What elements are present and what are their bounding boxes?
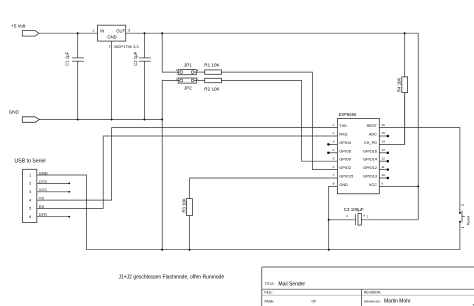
svg-text:16: 16 (381, 123, 385, 127)
svg-text:1: 1 (333, 123, 335, 127)
stub pin3 GPIO4 unconnected (330, 143, 338, 145)
pushbutton S1 Reset (459, 211, 470, 225)
IC U1 ESP8266 (337, 112, 379, 194)
svg-text:2: 2 (333, 131, 335, 135)
pin number 1 reset (461, 204, 464, 206)
wire R2 to GPIO0 route (221, 81, 337, 162)
svg-text:FILE:: FILE: (265, 291, 273, 295)
svg-text:J1+J2 geschlossen Flashmode, o: J1+J2 geschlossen Flashmode, offen Runmo… (118, 275, 224, 281)
wire USB DTR stub (37, 216, 70, 218)
svg-text:C3 100µF: C3 100µF (344, 207, 364, 212)
svg-text:GND: GND (9, 109, 20, 114)
svg-text:8: 8 (333, 182, 335, 186)
junction GND/regulator (111, 119, 113, 121)
svg-text:R1 10K: R1 10K (204, 63, 220, 68)
svg-text:3: 3 (29, 190, 31, 194)
wire JP2 to GND rail (162, 81, 180, 250)
jumper JP1 (178, 63, 196, 75)
svg-text:PAGE: PAGE (265, 300, 275, 304)
svg-text:GPIO2: GPIO2 (339, 165, 351, 170)
endpoint dot DTR (68, 216, 70, 218)
junction 3.3V/JP1 branch (161, 32, 163, 34)
junction rail/R3 (189, 249, 191, 251)
svg-text:TITLE:: TITLE: (265, 282, 275, 286)
stub pin13 GPIO16 unconnected (379, 152, 386, 154)
svg-text:9: 9 (381, 182, 383, 186)
jumper JP2 (178, 78, 196, 90)
wire 3.3V rail (126, 32, 419, 34)
wire ESP GND pin8 down (329, 186, 338, 249)
svg-text:15: 15 (381, 131, 385, 135)
svg-text:11: 11 (381, 165, 384, 169)
svg-text:R2 10K: R2 10K (204, 87, 220, 92)
junction GND/C2 (144, 119, 146, 121)
svg-text:TXD: TXD (339, 123, 347, 128)
junction rail/ESP GND (328, 249, 330, 251)
endpoint dot CTS (68, 183, 70, 185)
junction 3.3V/C2 (144, 32, 146, 34)
svg-text:7: 7 (333, 173, 335, 177)
svg-text:13: 13 (381, 148, 385, 152)
svg-text:DRAWN BY:: DRAWN BY: (364, 300, 381, 304)
wire reset switch to bottom rail (459, 223, 461, 250)
pin number 2 reset (461, 227, 464, 229)
wire USB VCC stub (37, 191, 70, 193)
svg-text:GPIO16: GPIO16 (363, 148, 377, 153)
svg-text:OF: OF (312, 300, 317, 304)
svg-text:GPIO14: GPIO14 (363, 157, 378, 162)
stub pin11 GPIO12 unconnected (379, 169, 386, 171)
svg-text:4: 4 (29, 198, 31, 202)
wire 3.3V to JP1 (162, 33, 180, 72)
wire ESP REST to reset switch (379, 128, 460, 212)
wire USB RX to ESP RXD (37, 136, 338, 208)
svg-text:Mail Sender: Mail Sender (278, 281, 305, 287)
wire 3.3V right vertical (417, 33, 419, 220)
svg-text:R4 10K: R4 10K (397, 78, 402, 92)
wire bottom GND rail (87, 249, 460, 251)
svg-text:GPIO15: GPIO15 (339, 174, 353, 179)
svg-text:14: 14 (381, 140, 385, 144)
junction 3.3V/VCC pin9 (417, 185, 419, 187)
svg-text:C1 1µF: C1 1µF (65, 51, 70, 66)
svg-text:R3 10K: R3 10K (181, 198, 186, 212)
resistor R2 10K (204, 78, 221, 91)
svg-text:GND: GND (339, 182, 348, 187)
resistor R3 10K (181, 178, 337, 250)
svg-text:4: 4 (333, 148, 335, 152)
svg-text:ESP8266: ESP8266 (339, 112, 357, 117)
wire USB GND to bottom rail (37, 175, 87, 250)
stub pin10 GPIO13 unconnected (379, 177, 386, 179)
junction GND/C3 (328, 219, 330, 221)
svg-text:CH_PD: CH_PD (364, 140, 377, 145)
svg-text:GPIO4: GPIO4 (339, 140, 352, 145)
svg-text:ADC: ADC (369, 132, 377, 137)
svg-text:C2 1µF: C2 1µF (133, 51, 138, 66)
stub pin4 GPIO5 unconnected (330, 152, 338, 154)
wire USB CTS stub (37, 182, 70, 184)
wire GND collector line (39, 119, 162, 121)
svg-text:3: 3 (333, 140, 335, 144)
connector SV1 USB to Seriel (14, 159, 45, 223)
svg-text:6: 6 (333, 165, 335, 169)
wire +5V rail (39, 32, 98, 34)
svg-text:2: 2 (109, 44, 111, 48)
svg-text:10: 10 (381, 173, 385, 177)
svg-text:1: 1 (92, 29, 94, 33)
wire ESP VCC to 3.3V (379, 185, 418, 187)
svg-text:1: 1 (29, 173, 31, 177)
svg-text:MCP1790 3,3: MCP1790 3,3 (114, 44, 139, 49)
svg-text:GPIO5: GPIO5 (339, 148, 351, 153)
capacitor C1 1µF (65, 33, 84, 119)
svg-text:GPIO12: GPIO12 (363, 165, 377, 170)
junction GND/JP2 branch (161, 119, 163, 121)
svg-text:IN: IN (100, 29, 104, 34)
junction rail/JP2 branch (161, 249, 163, 251)
svg-text:2: 2 (29, 182, 31, 186)
svg-text:OUT: OUT (116, 29, 125, 34)
wire JP2 to R2 (194, 80, 205, 82)
svg-text:Reset: Reset (467, 216, 471, 225)
title block frame (262, 267, 474, 306)
svg-text:GND: GND (107, 35, 116, 40)
svg-text:5: 5 (333, 156, 335, 160)
stub pin12 GPIO14 unconnected (379, 160, 386, 162)
svg-text:+: + (363, 213, 366, 218)
ground flag GND (9, 109, 40, 122)
resistor R4 10K (397, 33, 408, 144)
svg-text:12: 12 (381, 156, 385, 160)
svg-text:6: 6 (29, 215, 31, 219)
svg-text:Martin Mohr: Martin Mohr (384, 299, 411, 305)
svg-text:VCC: VCC (369, 182, 377, 187)
svg-text:JP2: JP2 (184, 85, 192, 90)
svg-text:REVISION:: REVISION: (364, 291, 381, 295)
svg-text:GPIO13: GPIO13 (363, 174, 377, 179)
svg-text:+5 Volt: +5 Volt (11, 24, 26, 29)
svg-text:3: 3 (128, 29, 130, 33)
wire ESP CH_PD to R4 (379, 93, 404, 145)
wire R1 to GPIO2 route (221, 72, 337, 170)
junction +5V/C1 (77, 32, 79, 34)
wire regulator GND pin down (111, 41, 113, 119)
svg-text:REST: REST (367, 123, 378, 128)
svg-text:5: 5 (29, 207, 31, 211)
supply flag +5V (11, 24, 39, 36)
capacitor C2 1µF (133, 33, 151, 119)
capacitor C3 100µF (329, 207, 419, 225)
wire USB TX to ESP TXD (37, 128, 338, 201)
svg-text:USB to Seriel: USB to Seriel (14, 159, 45, 165)
junction 3.3V/R4 (404, 32, 406, 34)
resistor R1 10K (204, 63, 221, 75)
wire JP1 to R1 (194, 71, 205, 73)
junction GND/C1 (77, 119, 79, 121)
stub pin15 ADC unconnected (379, 135, 386, 137)
endpoint dot VCC (68, 191, 70, 193)
svg-text:GPIO0: GPIO0 (339, 157, 352, 162)
svg-text:JP1: JP1 (184, 63, 192, 68)
svg-text:RXD: RXD (339, 132, 347, 137)
voltage regulator U$1 MCP1790 3,3 (98, 25, 140, 49)
